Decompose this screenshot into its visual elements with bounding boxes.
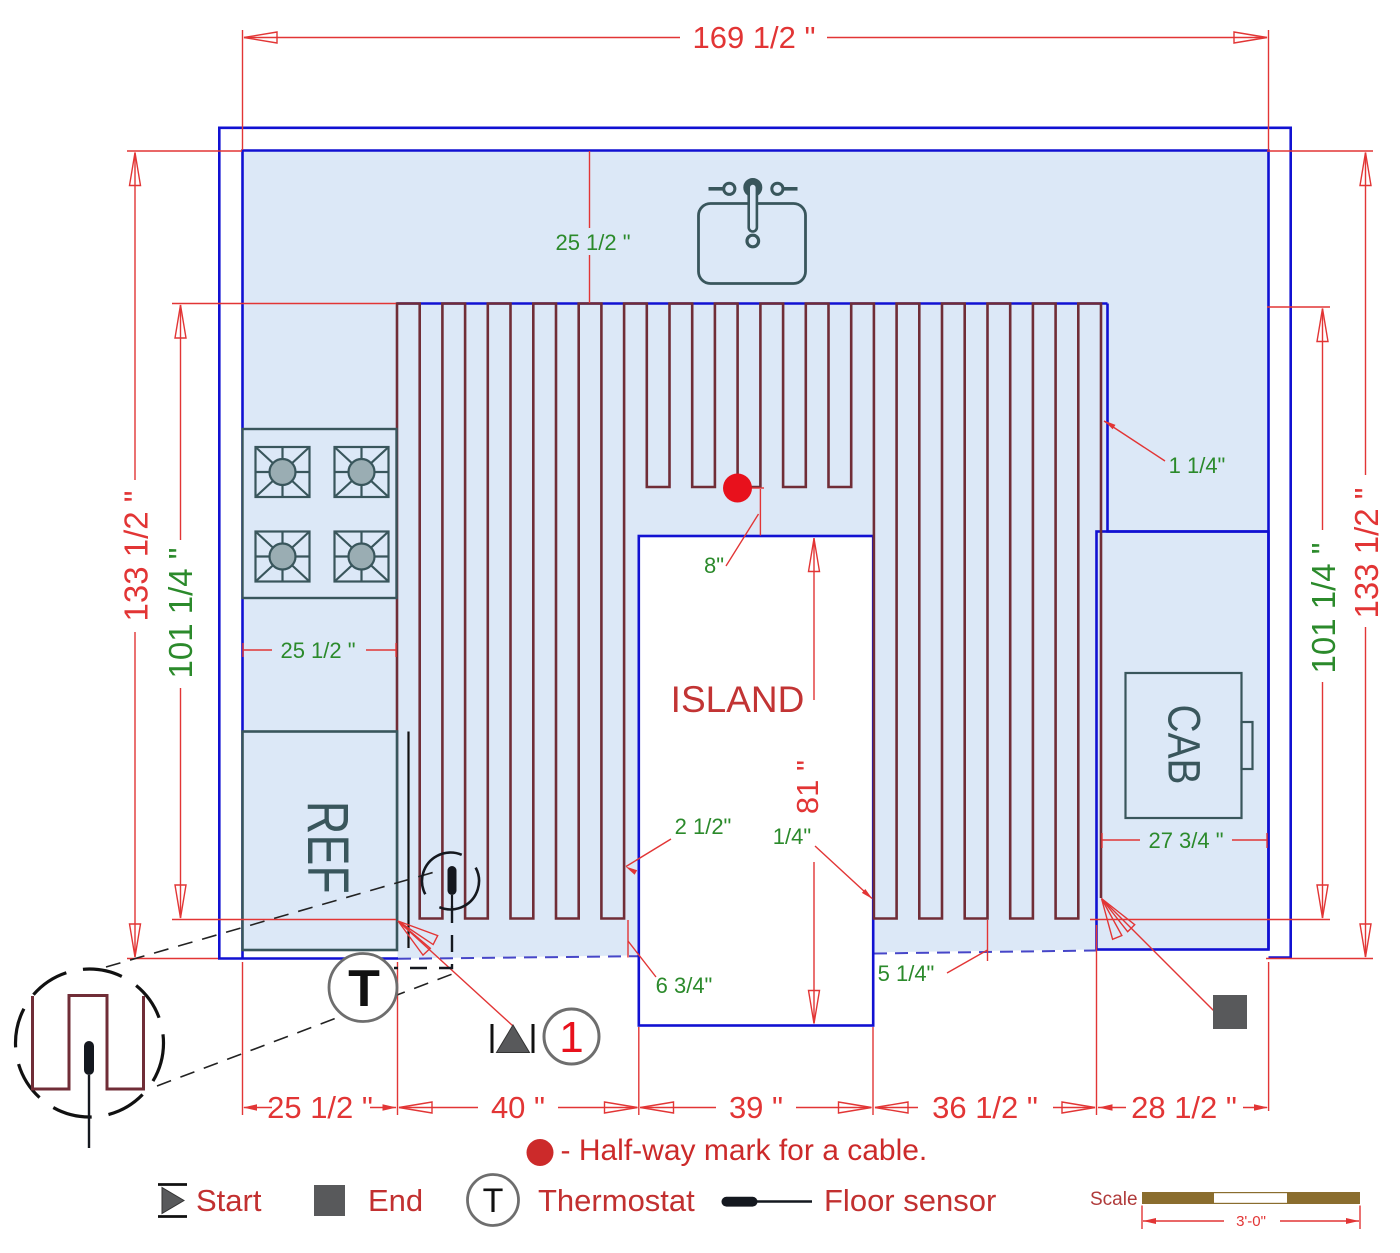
svg-text:1/4": 1/4" <box>773 824 811 849</box>
label 8 leader <box>759 489 761 536</box>
svg-text:6 3/4": 6 3/4" <box>656 973 713 998</box>
sensor wire dashes <box>394 906 452 968</box>
svg-text:T: T <box>483 1182 504 1220</box>
stove box <box>243 429 397 598</box>
half-way note dot <box>527 1139 554 1166</box>
left dim 101 extension <box>172 303 396 305</box>
svg-text:36 1/2 ": 36 1/2 " <box>932 1090 1038 1125</box>
top dim extension lines <box>242 30 244 150</box>
cold lead line <box>407 732 409 949</box>
svg-text:2 1/2": 2 1/2" <box>675 814 732 839</box>
label 1.25 leader <box>1104 421 1165 461</box>
floor sensor circle <box>412 842 489 919</box>
svg-text:133 1/2 ": 133 1/2 " <box>118 491 155 622</box>
burner bottom-right <box>335 532 389 582</box>
top dim line <box>244 37 680 39</box>
cab dim ticks <box>1101 833 1103 848</box>
svg-text:5 1/4": 5 1/4" <box>878 961 935 986</box>
bottom dim arrows seg1 <box>243 1104 257 1110</box>
svg-text:25 1/2 ": 25 1/2 " <box>267 1090 373 1125</box>
right dim 133 arrows <box>1360 153 1371 186</box>
label 6.75 leader <box>627 920 629 958</box>
end leader <box>1102 899 1215 1012</box>
detail cable <box>33 996 144 1090</box>
svg-text:Start: Start <box>196 1183 262 1218</box>
svg-text:25 1/2 ": 25 1/2 " <box>555 230 630 255</box>
right dim 101 extension <box>1267 306 1330 308</box>
burner bottom-left <box>256 532 310 582</box>
counter front edge <box>397 302 1108 305</box>
label 5.25 leader <box>987 920 989 961</box>
legend start symbol <box>158 1183 187 1186</box>
scale bar <box>1142 1192 1360 1204</box>
right dim 101 line <box>1322 309 1324 531</box>
refrigerator box <box>243 732 398 951</box>
dashed open edge right <box>874 951 1096 954</box>
sink basin <box>699 204 806 284</box>
end arrows <box>1098 895 1135 932</box>
scale dim <box>1141 1206 1143 1230</box>
sink faucet <box>709 179 798 247</box>
cab dim line <box>1102 839 1140 841</box>
svg-text:40 ": 40 " <box>491 1090 545 1125</box>
svg-text:Scale: Scale <box>1090 1189 1138 1210</box>
bottom dim arrows seg3 <box>641 1102 674 1113</box>
svg-text:End: End <box>368 1183 423 1218</box>
svg-text:39 ": 39 " <box>729 1090 783 1125</box>
thermostat circle <box>329 954 397 1022</box>
detail leader lower <box>157 973 455 1086</box>
svg-text:ISLAND: ISLAND <box>671 679 805 720</box>
bottom dim lines <box>244 1107 272 1109</box>
bottom dim extensions <box>242 962 244 1115</box>
svg-text:REF: REF <box>295 801 360 894</box>
svg-text:101 1/4 ": 101 1/4 " <box>1305 543 1342 674</box>
right dim 133 line <box>1365 153 1367 476</box>
inner floor border <box>243 151 1269 959</box>
left dim 133 arrows <box>130 153 141 186</box>
left dim 101 line <box>180 305 182 540</box>
stove dim ticks <box>242 643 244 657</box>
svg-text:- Half-way mark for a cable.: - Half-way mark for a cable. <box>561 1134 928 1167</box>
svg-text:133 1/2 ": 133 1/2 " <box>1348 488 1385 619</box>
legend thermostat symbol <box>468 1175 519 1226</box>
marker circle 1 <box>544 1009 599 1064</box>
cabinet zone outline <box>1097 532 1269 950</box>
half-way mark dot <box>723 474 752 503</box>
svg-text:25 1/2 ": 25 1/2 " <box>280 638 355 663</box>
svg-text:Thermostat: Thermostat <box>538 1183 695 1218</box>
top-right zone boundary <box>1108 304 1269 532</box>
svg-text:Floor sensor: Floor sensor <box>824 1183 996 1218</box>
left dim 133 extension <box>127 150 242 152</box>
outer wall outline <box>219 128 1290 959</box>
heating cable serpentine <box>397 304 1101 921</box>
svg-text:81 ": 81 " <box>790 760 825 814</box>
stove dim line <box>243 649 272 651</box>
counter depth dim line <box>589 151 591 228</box>
detail sensor <box>84 1041 94 1075</box>
svg-text:8": 8" <box>704 553 724 578</box>
svg-text:1 1/4": 1 1/4" <box>1169 453 1226 478</box>
label 2.5 leader <box>626 839 671 867</box>
right dim 133 extension <box>1267 150 1373 152</box>
detail leader upper <box>106 871 438 967</box>
floor area fill <box>243 151 1269 959</box>
label 0.25 leader <box>815 846 872 899</box>
svg-text:169 1/2 ": 169 1/2 " <box>692 20 815 55</box>
bottom dim arrows seg2 <box>399 1102 432 1113</box>
end marker square <box>1213 995 1247 1029</box>
svg-text:CAB: CAB <box>1159 705 1210 785</box>
right dim 101 arrows <box>1317 309 1328 342</box>
start marker <box>491 1024 494 1053</box>
burner top-right <box>335 447 389 497</box>
svg-text:1: 1 <box>559 1013 583 1062</box>
left dim 101 arrows <box>175 305 186 338</box>
legend sensor symbol <box>722 1197 758 1207</box>
svg-text:3'-0": 3'-0" <box>1236 1213 1266 1230</box>
island box <box>639 536 873 1026</box>
start leader <box>398 921 513 1026</box>
start arrows <box>396 917 438 945</box>
svg-text:T: T <box>348 960 380 1018</box>
svg-text:27 3/4 ": 27 3/4 " <box>1148 828 1223 853</box>
svg-text:28 1/2 ": 28 1/2 " <box>1131 1090 1237 1125</box>
left dim 133 line <box>134 153 136 481</box>
dashed open edge left <box>398 956 638 959</box>
bottom dim arrows seg4 <box>875 1102 908 1113</box>
detail circle <box>16 969 164 1117</box>
island dim line <box>813 538 815 700</box>
island dim arrows <box>809 539 820 572</box>
top dim arrows <box>244 32 277 43</box>
burner top-left <box>256 447 310 497</box>
floor sensor capsule <box>448 866 457 895</box>
legend end symbol <box>314 1185 345 1216</box>
bottom dim arrows seg5 <box>1099 1104 1113 1110</box>
oven box <box>1126 673 1253 818</box>
svg-text:101 1/4 ": 101 1/4 " <box>162 548 199 679</box>
